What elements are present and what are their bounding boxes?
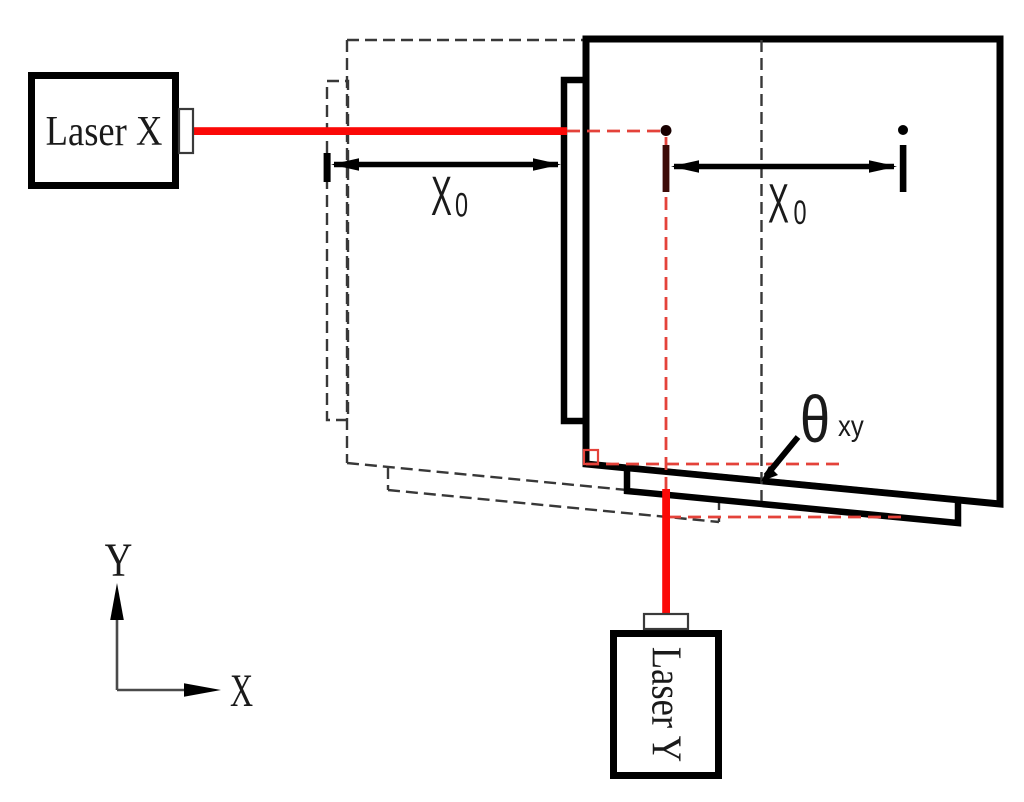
svg-text:Laser Y: Laser Y [643,647,690,762]
target tick right (under dot) [900,145,907,192]
svg-text:xy: xy [838,409,864,442]
coordinate axes [105,534,253,716]
Y axis line [116,615,119,690]
label X0 right [768,172,807,235]
Laser Y aperture [644,614,688,629]
dashed reflector (initial position) [327,81,348,420]
left end cap [387,467,389,490]
svg-text:X: X [768,172,789,235]
red right-angle marker [584,450,598,464]
red dashed horizontal lower reference [668,516,904,519]
left edge [346,40,348,463]
base bar (solid, tilted) [627,468,958,523]
red dashed vertical from dot to beam [665,137,668,490]
Y arrowhead [110,583,124,620]
bottom edge [388,490,719,522]
svg-text:θ: θ [800,382,830,456]
reflector on square (solid) [564,80,590,421]
dashed base bar (initial position) [388,467,719,522]
theta_xy leader arrow [761,437,798,482]
red dashed horizontal at beam height [567,130,662,133]
laser X beam [192,127,567,135]
target tick left (under dot) [663,145,670,192]
bottom edge slanted [347,463,630,490]
Laser Y box [614,634,719,776]
Laser X box [32,76,176,186]
dimension arrow 1 (dashed to solid reflector) [331,158,561,171]
label theta xy [800,382,864,456]
right end cap [718,498,720,522]
dashed square right edge (visible through) [760,40,762,501]
svg-text:X: X [230,664,253,717]
top edge [347,39,586,41]
laser Y beam [662,489,670,615]
Laser X aperture [179,109,193,153]
dimension arrow 2 (between dots) [671,160,897,173]
red dashed horizontal at square corner [586,463,845,466]
measurement dot left [661,125,672,136]
X axis line [117,689,190,692]
svg-text:0: 0 [455,187,468,224]
svg-text:X: X [431,164,452,227]
tick at dashed reflector [324,153,331,182]
svg-text:Y: Y [105,534,133,587]
big square (moved position) [586,39,1000,504]
svg-text:0: 0 [794,195,807,232]
X arrowhead [184,683,221,697]
svg-text:Laser X: Laser X [46,108,163,155]
dashed square outline (initial position) [347,40,630,490]
label X0 left [431,164,468,227]
measurement dot right [898,125,908,135]
